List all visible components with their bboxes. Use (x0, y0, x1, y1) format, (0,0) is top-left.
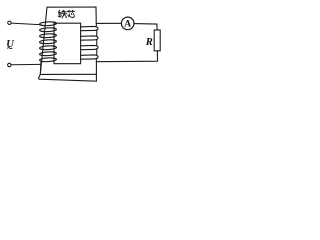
芯 heart (67, 15, 70, 16)
iron core inner window (54, 23, 81, 64)
wire T2 to primary coil bottom (11, 63, 40, 65)
primary coil L1 (7 turns, left limb) (40, 21, 57, 62)
wire secondary top to ammeter (96, 22, 121, 24)
secondary coil L2 (4 turns, right limb) (81, 23, 98, 59)
svg-text:A: A (124, 20, 131, 30)
wire primary/secondary bottom link (39, 58, 97, 81)
resistor R (154, 30, 160, 51)
wire ammeter to resistor top (134, 24, 157, 30)
iron core outer bottom edge (40, 73, 96, 75)
铁 right 失 (62, 10, 63, 11)
terminal T1 (top-left input) (8, 21, 11, 24)
terminal T2 (bottom-left input) (8, 63, 11, 66)
svg-text:R: R (145, 37, 153, 48)
ammeter U1 (121, 17, 134, 30)
铁 radical 钅 (58, 10, 59, 12)
wire resistor bottom to secondary bottom (96, 51, 157, 62)
AC tilde under U (7, 47, 12, 50)
iron core outer outline (left, top, upper-right) (40, 7, 96, 74)
wire T1 to primary coil (11, 23, 41, 25)
label 铁芯 (iron core), hand-drawn strokes (58, 10, 74, 18)
芯 grass radical (67, 10, 74, 12)
